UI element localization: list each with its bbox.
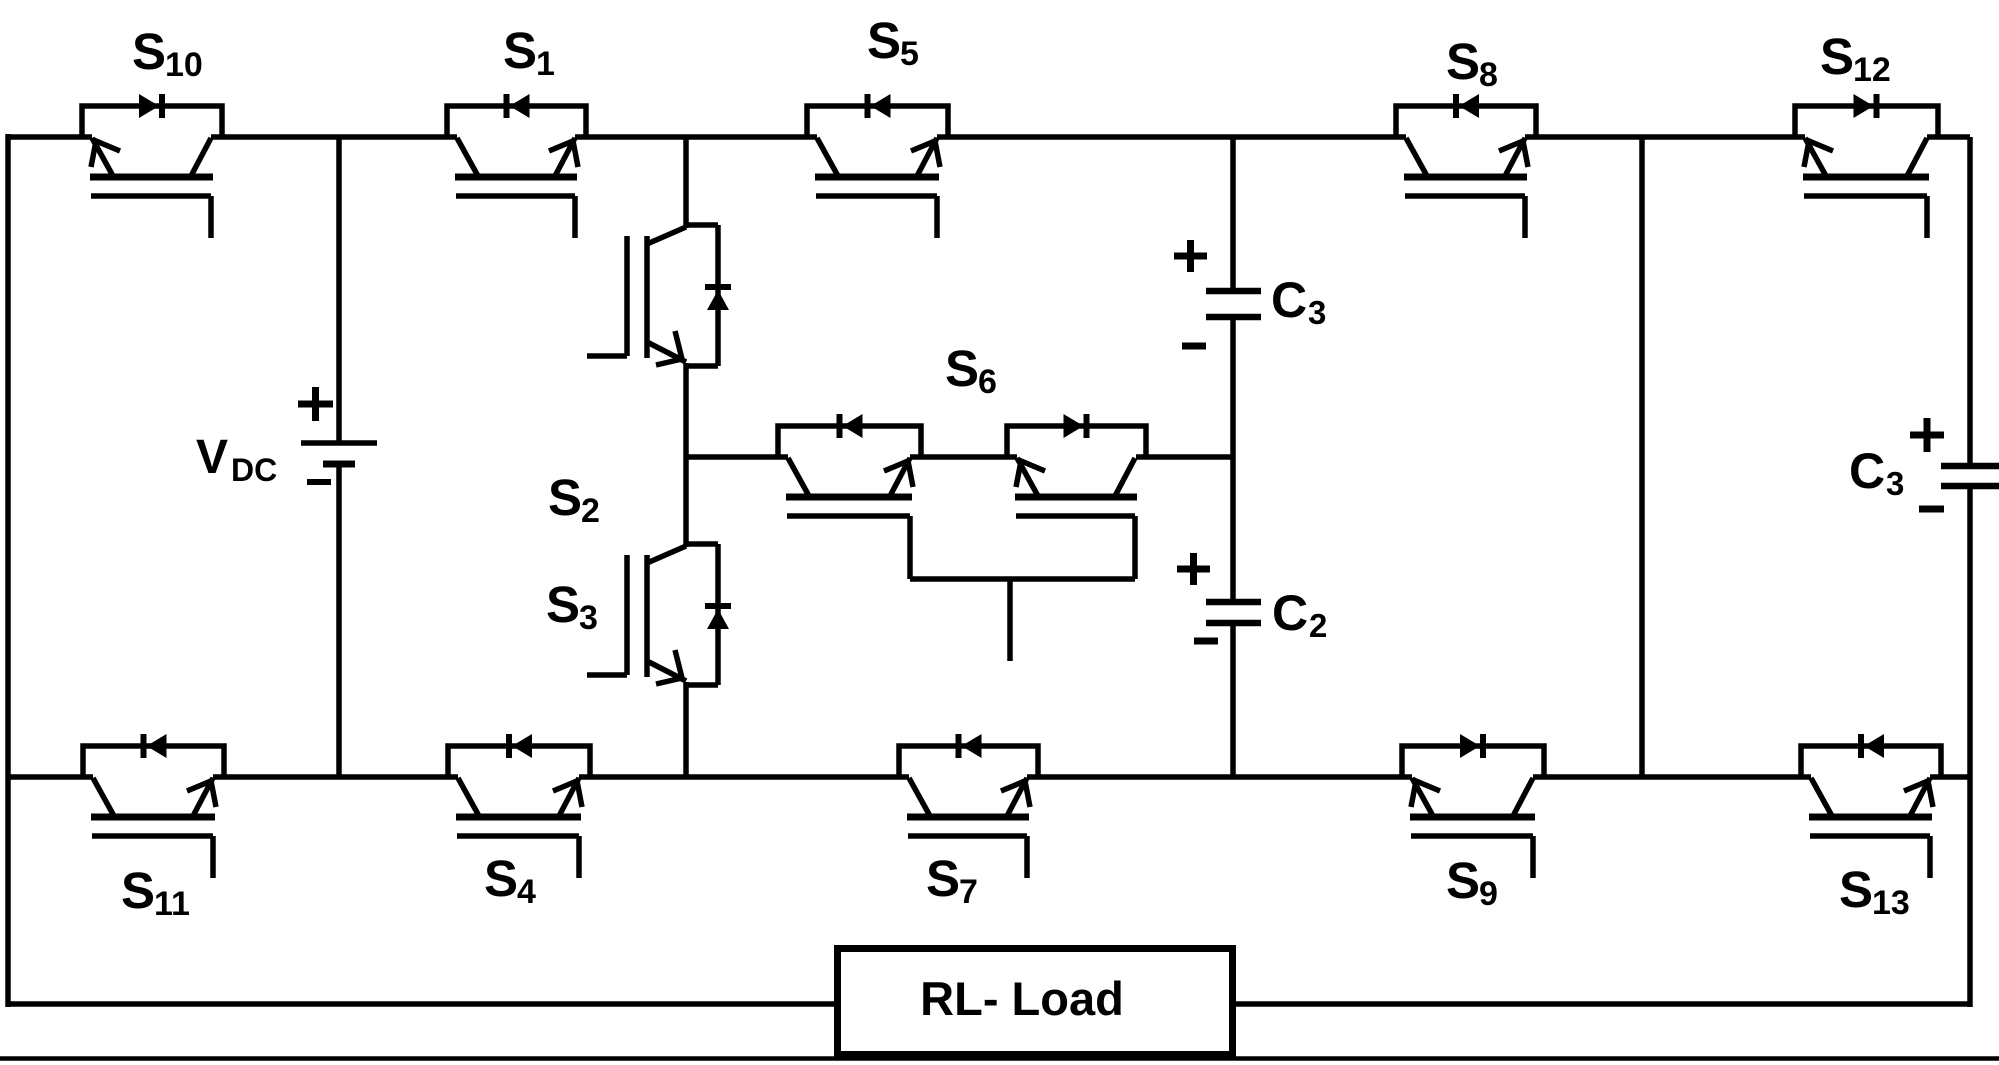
svg-text:13: 13 <box>1872 884 1910 922</box>
svg-text:5: 5 <box>900 35 919 73</box>
wire: capacitor leg <box>1230 137 1236 289</box>
transistor S1 (IGBT with anti-parallel diode) <box>447 22 586 238</box>
wire: lower mid rail <box>8 774 93 780</box>
svg-text:8: 8 <box>1479 56 1498 94</box>
transistor S13 (IGBT with anti-parallel diode) <box>1801 734 1941 922</box>
svg-text:1: 1 <box>536 45 555 83</box>
svg-text:3: 3 <box>1886 465 1904 502</box>
svg-text:3: 3 <box>1308 294 1326 331</box>
svg-text:4: 4 <box>517 873 536 911</box>
svg-text:6: 6 <box>978 363 997 401</box>
capacitor C2 (lower) <box>1177 553 1327 644</box>
transistor S4 (IGBT with anti-parallel diode) <box>448 734 590 911</box>
svg-text:S: S <box>945 340 979 397</box>
RL-Load block <box>838 949 1233 1055</box>
svg-text:S: S <box>546 576 580 633</box>
transistor S9 (IGBT with anti-parallel diode) <box>1402 734 1544 913</box>
transistor S12 (IGBT with anti-parallel diode) <box>1795 28 1938 238</box>
wire: VDC leg <box>336 137 342 443</box>
svg-text:2: 2 <box>581 492 600 530</box>
svg-text:2: 2 <box>1309 607 1327 644</box>
transistor S2 (IGBT with anti-parallel diode) <box>548 225 731 530</box>
transistor S3 (IGBT with anti-parallel diode) <box>546 544 731 685</box>
svg-text:S: S <box>926 850 960 907</box>
svg-text:S: S <box>548 469 582 526</box>
wire: S6 common gate connector <box>910 576 1135 582</box>
wire: S2/S3 leg <box>683 137 689 228</box>
transistor S11 (IGBT with anti-parallel diode) <box>83 734 224 923</box>
svg-text:S: S <box>867 12 901 69</box>
svg-text:7: 7 <box>959 873 978 911</box>
bottom figure border <box>0 1056 1999 1061</box>
svg-text:3: 3 <box>579 599 598 637</box>
capacitor C3 (right) <box>1849 418 1999 509</box>
svg-text:11: 11 <box>154 885 190 923</box>
svg-text:12: 12 <box>1853 51 1891 89</box>
transistor S5 (IGBT with anti-parallel diode) <box>807 12 948 238</box>
svg-text:10: 10 <box>165 46 203 84</box>
svg-text:RL- Load: RL- Load <box>920 972 1124 1025</box>
wire: right edge leg <box>1967 137 1973 466</box>
svg-text:S: S <box>1446 852 1480 909</box>
transistor S6 right half (IGBT with anti-parallel diode) <box>1007 414 1146 579</box>
battery VDC <box>196 387 377 488</box>
wire: bottom output rail <box>8 1001 834 1007</box>
svg-text:DC: DC <box>231 452 277 488</box>
wire: S6 branch rail <box>686 454 788 460</box>
svg-text:S: S <box>1820 28 1854 85</box>
svg-text:9: 9 <box>1479 875 1498 913</box>
svg-text:S: S <box>121 862 155 919</box>
svg-text:S: S <box>132 23 166 80</box>
svg-text:V: V <box>196 431 228 484</box>
transistor S10 (IGBT with anti-parallel diode) <box>82 23 222 238</box>
wire: top DC rail <box>8 134 92 140</box>
svg-text:S: S <box>1839 861 1873 918</box>
transistor S6 left half (IGBT with anti-parallel diode) <box>778 340 997 579</box>
svg-text:S: S <box>484 850 518 907</box>
wire: left edge vertical <box>5 134 11 1007</box>
transistor S7 (IGBT with anti-parallel diode) <box>899 734 1038 911</box>
svg-text:S: S <box>503 22 537 79</box>
capacitor C3 (upper) <box>1174 240 1326 346</box>
transistor S8 (IGBT with anti-parallel diode) <box>1396 33 1536 238</box>
svg-text:C: C <box>1271 272 1307 328</box>
wire: leg between S8 and S12 <box>1639 137 1645 777</box>
svg-text:C: C <box>1849 443 1885 499</box>
svg-text:S: S <box>1446 33 1480 90</box>
svg-text:C: C <box>1272 585 1308 641</box>
